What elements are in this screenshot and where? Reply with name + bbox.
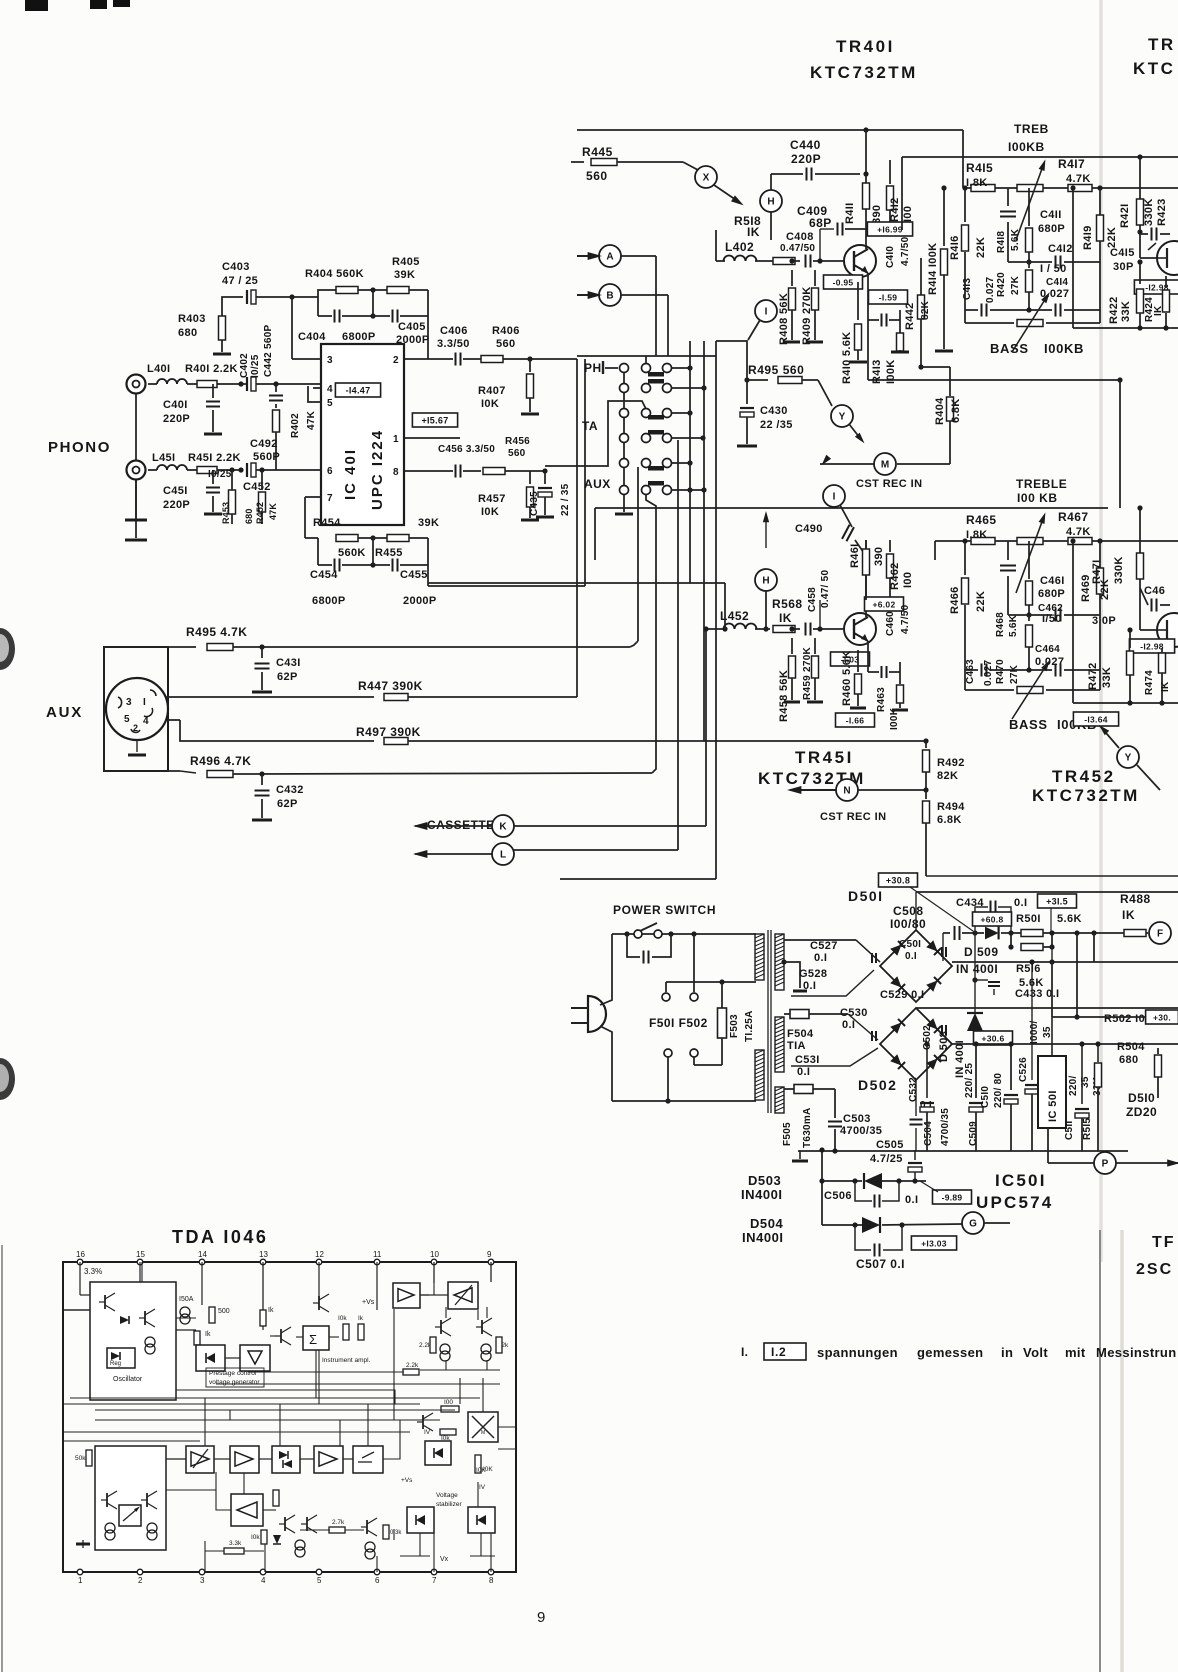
svg-text:30P: 30P <box>1113 261 1134 273</box>
wire collector TR451 up <box>865 540 867 617</box>
ground switch column <box>615 513 633 516</box>
svg-text:R445: R445 <box>582 145 613 159</box>
capacitor C526 el <box>1031 962 1033 1080</box>
TDA chain switch box <box>353 1446 383 1473</box>
svg-text:R40I 2.2K: R40I 2.2K <box>185 363 238 375</box>
wire H down <box>770 212 772 240</box>
wire bus y892 <box>916 891 1178 893</box>
bridge cap stubs D502 <box>871 1031 873 1041</box>
capacitor C440 <box>771 173 803 175</box>
svg-text:8: 8 <box>393 467 399 478</box>
TDA zener box prestage <box>196 1345 225 1371</box>
connector M <box>874 453 896 475</box>
svg-text:I: I <box>765 307 768 318</box>
svg-text:82K: 82K <box>920 300 931 320</box>
svg-text:Messinstrun: Messinstrun <box>1096 1345 1177 1360</box>
svg-text:Ik: Ik <box>358 1315 364 1322</box>
svg-text:IN400I: IN400I <box>742 1230 784 1245</box>
wire phono1 row <box>148 383 157 385</box>
connector F <box>1149 922 1171 944</box>
resistor R447 <box>384 694 408 701</box>
svg-text:33K: 33K <box>1120 301 1132 322</box>
voltage box -1.66 <box>836 713 875 727</box>
switch contact bar row2 <box>648 379 664 384</box>
bridge rectifier D502 <box>880 1008 952 1080</box>
svg-text:C506: C506 <box>824 1190 852 1202</box>
wire vertical c top corner <box>716 341 747 380</box>
svg-text:R406: R406 <box>492 325 520 337</box>
capacitor C406 <box>455 353 457 366</box>
svg-text:62P: 62P <box>277 671 298 683</box>
resistor R421 vertical <box>1137 199 1144 225</box>
svg-text:0.I: 0.I <box>1014 897 1027 909</box>
wire C455 bottom rail right <box>427 565 429 586</box>
TDA gnd left <box>82 1540 84 1548</box>
svg-text:IV: IV <box>424 1429 431 1436</box>
svg-text:R408 56K: R408 56K <box>778 293 790 345</box>
svg-text:L40I: L40I <box>147 363 170 375</box>
wire C403 to node <box>256 296 318 298</box>
loop C434 <box>975 907 988 933</box>
TDA wire v13 <box>262 1278 264 1309</box>
wire top bus ch1 right drop <box>962 130 964 188</box>
resistor treble pot ch2 <box>1017 538 1043 545</box>
capacitor C459 <box>805 623 807 636</box>
svg-text:13: 13 <box>259 1250 268 1259</box>
svg-text:47 / 25: 47 / 25 <box>222 275 258 287</box>
svg-text:TA: TA <box>582 419 598 433</box>
wire R465 bus <box>935 540 1178 542</box>
svg-text:R470: R470 <box>995 659 1006 684</box>
svg-text:CST REC IN: CST REC IN <box>856 478 922 490</box>
connector G <box>962 1212 984 1234</box>
svg-text:I0/25: I0/25 <box>250 354 261 378</box>
svg-text:220/: 220/ <box>1068 1075 1079 1096</box>
wire bottom stub <box>560 878 716 880</box>
capacitor C463 <box>965 669 978 671</box>
node C511 top <box>1074 930 1079 935</box>
node phono2 <box>238 467 243 472</box>
scan artifact top-left marks <box>25 0 48 11</box>
svg-text:2000P: 2000P <box>403 595 437 607</box>
resistor R467 <box>1068 538 1092 545</box>
TDA mix transistor <box>422 1415 424 1429</box>
wire primary tap row <box>666 981 756 983</box>
svg-text:560K: 560K <box>338 547 366 559</box>
switch cap snubber <box>627 934 640 957</box>
wire G528 branch <box>781 959 786 964</box>
TDA pin top 12 <box>316 1259 322 1265</box>
svg-text:TIA: TIA <box>787 1040 806 1052</box>
resistor R469 vertical <box>1097 568 1104 594</box>
svg-text:R4I9: R4I9 <box>1082 225 1094 250</box>
node C462 left <box>1026 612 1031 617</box>
svg-text:7: 7 <box>432 1576 437 1585</box>
svg-text:5.6K: 5.6K <box>1057 913 1082 925</box>
svg-text:R452: R452 <box>255 502 265 524</box>
resistor R424 vertical <box>1165 276 1167 288</box>
svg-text:22 /35: 22 /35 <box>760 419 793 431</box>
node C432 <box>259 771 264 776</box>
svg-text:mit: mit <box>1065 1345 1086 1360</box>
wire base TR452 <box>1139 592 1141 630</box>
resistor R422 vertical <box>1139 262 1141 284</box>
resistor R496-4.7K <box>207 771 233 778</box>
switch pole column <box>623 368 625 512</box>
connector Y ch1 <box>831 405 853 427</box>
svg-text:TREBLE: TREBLE <box>1016 477 1067 491</box>
wire C508 row <box>943 932 950 934</box>
svg-text:560: 560 <box>508 448 526 459</box>
power switch row <box>612 933 756 935</box>
wire N right <box>858 789 926 791</box>
svg-text:680P: 680P <box>1038 223 1065 235</box>
svg-text:10: 10 <box>430 1250 439 1259</box>
resistor R454 body <box>336 535 358 542</box>
svg-text:R568: R568 <box>772 597 803 611</box>
svg-text:C402: C402 <box>239 353 250 378</box>
TDA pin top 10 <box>431 1259 437 1265</box>
TDA osc wires <box>79 1262 81 1295</box>
svg-text:390: 390 <box>871 205 883 224</box>
resistor bass pot ch2 <box>1017 687 1043 694</box>
svg-text:C5I0: C5I0 <box>980 1086 991 1108</box>
resistor R412 vertical <box>889 160 891 184</box>
wire emitter TR401 down <box>867 273 869 282</box>
wire bridge2 top bus <box>916 1007 1178 1009</box>
svg-text:4.7/50: 4.7/50 <box>900 604 911 634</box>
wire bridge2 out <box>952 1043 1178 1045</box>
switch contact bar row5 <box>648 466 664 471</box>
wire aux row1 <box>104 646 196 648</box>
capacitor C404 <box>317 297 319 316</box>
DIN socket circle <box>106 678 168 740</box>
svg-text:X: X <box>703 173 710 184</box>
svg-text:R474: R474 <box>1144 670 1155 695</box>
svg-text:680: 680 <box>244 508 254 524</box>
fuse F504 <box>784 1013 790 1015</box>
node C403 top <box>289 294 294 299</box>
ground C432 <box>252 819 272 822</box>
bridge diode D501 <box>926 977 941 992</box>
svg-text:220P: 220P <box>163 499 190 511</box>
wire R442 to R404 <box>921 366 950 368</box>
voltage box -9.89 <box>933 1190 972 1204</box>
capacitor C435 electrolytic <box>544 471 546 484</box>
capacitor C510 el <box>1010 1044 1012 1090</box>
wire switch vertical b <box>703 341 705 741</box>
voltage box +15.67 <box>412 413 457 427</box>
connector Y ch2 <box>1117 746 1139 768</box>
wire R495 diagonal to Y <box>818 380 832 406</box>
wire plug bottom <box>600 1026 612 1101</box>
power bottom rail <box>612 1100 756 1102</box>
svg-text:3.3%: 3.3% <box>84 1267 102 1276</box>
note voltage box sample <box>764 1343 806 1360</box>
wire feedback rail right <box>428 582 725 584</box>
wire bass pot rail ch1 <box>964 310 966 323</box>
svg-text:D5I0: D5I0 <box>1128 1091 1155 1105</box>
resistor R463 vertical <box>899 682 901 684</box>
svg-text:R456: R456 <box>505 436 530 447</box>
voltage box -1.59 <box>869 290 908 304</box>
svg-text:R4I7: R4I7 <box>1058 157 1085 171</box>
svg-text:1: 1 <box>78 1576 83 1585</box>
TDA wire mesh h7 <box>63 1440 200 1442</box>
resistor R495-560 <box>747 379 768 381</box>
transistor TR452 edge <box>1157 613 1178 647</box>
wire K arrow <box>415 825 492 827</box>
wire bottom rail ch1 right <box>1073 327 1178 329</box>
TDA chain tri1 <box>230 1446 259 1473</box>
wire M left arrow <box>820 463 874 465</box>
svg-text:T630mA: T630mA <box>802 1107 813 1148</box>
wire top bus ch1 <box>577 129 963 131</box>
TDA 100 res <box>441 1406 459 1412</box>
TDA pin12 wire <box>318 1262 320 1300</box>
svg-text:C4I3: C4I3 <box>962 278 973 300</box>
svg-text:R404 560K: R404 560K <box>305 268 364 280</box>
node C434 left <box>962 932 984 934</box>
TDA wire mid v5 <box>393 1309 395 1420</box>
voltage box -12.98 ch1 <box>1134 280 1178 294</box>
resistor R461 vertical <box>865 540 867 548</box>
resistor R466 vertical <box>964 541 966 575</box>
capacitor C408 <box>805 255 807 268</box>
wire TA staircase <box>545 401 646 466</box>
svg-text:in: in <box>1001 1345 1013 1360</box>
bridge diode D502 <box>926 1055 941 1070</box>
wire row4 drop <box>677 440 679 850</box>
svg-text:IK: IK <box>1153 305 1164 316</box>
wire R502 row <box>1052 1016 1147 1018</box>
svg-text:C455: C455 <box>400 569 428 581</box>
bridge diode D502 <box>890 1054 905 1069</box>
phono jack 2 <box>127 461 146 480</box>
wire switch vertical c <box>715 341 717 879</box>
svg-text:IK: IK <box>747 225 760 239</box>
wire treble bus ch2 top <box>595 507 1108 509</box>
svg-text:560: 560 <box>496 338 515 350</box>
capacitor C431 <box>261 647 263 658</box>
TDA sigma box <box>303 1326 329 1350</box>
svg-text:I00 KB: I00 KB <box>1017 491 1058 505</box>
node R467 right <box>1097 538 1102 543</box>
zener D508 on branch <box>974 980 976 1012</box>
resistor R416 vertical <box>964 188 966 222</box>
TDA tri down box <box>240 1345 270 1371</box>
svg-text:5: 5 <box>124 714 130 725</box>
svg-text:I.8K: I.8K <box>966 177 988 189</box>
svg-text:C403: C403 <box>222 261 250 273</box>
svg-text:C432: C432 <box>276 784 304 796</box>
wire sec1 diag to bridge <box>856 940 880 962</box>
wire B right <box>621 294 668 296</box>
svg-text:-I.66: -I.66 <box>846 716 865 726</box>
switch row1 right wire <box>671 367 690 369</box>
svg-text:14: 14 <box>198 1250 207 1259</box>
svg-text:I: I <box>143 697 146 708</box>
svg-text:R495 4.7K: R495 4.7K <box>186 625 247 639</box>
wire C490 to R461 <box>855 540 866 556</box>
switch contact pair row6 <box>642 486 651 495</box>
wire K right <box>514 825 706 827</box>
svg-text:I00/80: I00/80 <box>890 917 926 931</box>
svg-text:B: B <box>606 291 613 302</box>
svg-text:R422: R422 <box>1108 296 1120 324</box>
TDA osc diode <box>120 1316 129 1324</box>
pot arrow treble ch1 <box>1016 166 1043 240</box>
svg-text:12: 12 <box>315 1250 324 1259</box>
svg-text:A: A <box>606 252 613 263</box>
svg-text:+30.8: +30.8 <box>886 876 910 886</box>
svg-text:+3I.5: +3I.5 <box>1046 897 1068 907</box>
bridge diode D501 <box>890 976 905 991</box>
TDA 0.3k <box>383 1525 389 1539</box>
svg-text:680: 680 <box>1119 1054 1138 1066</box>
TDA wires top <box>63 1309 90 1311</box>
svg-text:R488: R488 <box>1120 892 1151 906</box>
node R407 <box>527 356 532 361</box>
wire C511 drop <box>1076 933 1078 1017</box>
svg-text:C45I: C45I <box>163 485 188 497</box>
svg-text:R458 56K: R458 56K <box>778 670 790 722</box>
svg-text:0.I: 0.I <box>797 1066 810 1078</box>
svg-text:R5I5: R5I5 <box>1082 1118 1093 1140</box>
voltage box +30x <box>1146 1010 1178 1024</box>
svg-text:TI.25A: TI.25A <box>744 1010 755 1042</box>
IC501 regulator box <box>1038 1056 1066 1128</box>
transformer secondary bottom <box>775 1087 784 1113</box>
arrow to Y ch2 <box>1100 726 1119 748</box>
connector H ch1 <box>760 190 782 212</box>
svg-text:47K: 47K <box>306 410 317 430</box>
svg-text:330K: 330K <box>1143 198 1155 226</box>
capacitor C508 electrolytic <box>954 926 956 940</box>
resistor R472 vertical <box>1129 630 1131 648</box>
TDA pin9 wire <box>490 1262 492 1282</box>
svg-text:I.2: I.2 <box>771 1345 786 1359</box>
arrow from Y <box>849 424 860 438</box>
svg-text:R492: R492 <box>937 757 965 769</box>
svg-text:IC50I: IC50I <box>995 1171 1047 1190</box>
TDA wire h4 <box>63 1431 410 1433</box>
node C413 C414 rail <box>1026 307 1031 312</box>
resistor R501 lower parallel <box>1010 933 1012 947</box>
TDA wire right v6 <box>459 1378 461 1404</box>
wire L452 row <box>706 628 725 630</box>
transformer secondary mid <box>775 1017 784 1072</box>
resistor R465 <box>971 538 995 545</box>
svg-text:C406: C406 <box>440 325 468 337</box>
wire right vertical ch2 <box>1139 508 1141 592</box>
svg-text:IK: IK <box>1160 681 1171 692</box>
svg-text:I50A: I50A <box>179 1296 194 1303</box>
svg-text:R4I4 I00K: R4I4 I00K <box>927 243 939 295</box>
svg-text:220P: 220P <box>163 413 190 425</box>
feedback loop top wires <box>318 290 330 297</box>
wire phono1 ground <box>135 394 137 538</box>
TDA pin13 wire <box>262 1262 264 1330</box>
resistor R402 <box>273 410 280 432</box>
svg-text:1: 1 <box>393 434 399 445</box>
TDA var res box <box>119 1505 141 1526</box>
wire R516 branch <box>974 933 976 980</box>
svg-text:68P: 68P <box>809 216 832 230</box>
svg-text:R409 270K: R409 270K <box>801 286 813 345</box>
TDA low mid transistor pair <box>284 1517 286 1531</box>
coil L401 <box>157 379 187 384</box>
TDA wire bottom runs <box>94 1550 96 1572</box>
svg-text:D503: D503 <box>748 1173 781 1188</box>
svg-text:4.7/50: 4.7/50 <box>900 236 911 266</box>
switch pole contact row2 <box>620 384 629 393</box>
arrow up wire ch2 <box>765 522 767 548</box>
vertical line right lower <box>1099 1230 1101 1672</box>
wire R445 diagonal to X <box>683 162 698 170</box>
svg-text:C46: C46 <box>1144 585 1165 597</box>
TDA pin bottom 5 <box>316 1569 322 1575</box>
svg-text:47K: 47K <box>268 503 278 520</box>
wire P right <box>1116 1162 1178 1164</box>
svg-text:R462: R462 <box>889 562 901 590</box>
svg-text:3.3k: 3.3k <box>229 1540 242 1547</box>
phono jack 1 <box>127 375 146 394</box>
svg-text:+30.6: +30.6 <box>981 1034 1004 1044</box>
svg-text:IK: IK <box>779 611 792 625</box>
svg-text:-I3.64: -I3.64 <box>1084 715 1108 725</box>
wire base TR402 <box>1139 238 1141 258</box>
svg-text:BASS: BASS <box>1009 717 1048 732</box>
svg-text:4: 4 <box>143 716 149 727</box>
svg-text:0.I: 0.I <box>803 980 816 992</box>
page fold line <box>1099 0 1103 1262</box>
capacitor C413 <box>965 309 978 311</box>
svg-text:4.7K: 4.7K <box>1066 173 1091 185</box>
switch pole contact row5 <box>620 459 629 468</box>
ground R410 <box>849 361 867 364</box>
mains plug <box>588 996 606 1032</box>
wire diag -9.89 <box>920 1181 938 1192</box>
svg-text:F50I F502: F50I F502 <box>649 1016 708 1030</box>
svg-text:R463: R463 <box>876 687 887 712</box>
TDA wire sigma down <box>315 1350 317 1398</box>
svg-text:0.027: 0.027 <box>985 276 996 303</box>
node L452 out <box>703 626 708 631</box>
TDA bottom rail <box>63 1571 516 1573</box>
svg-text:H: H <box>767 197 774 208</box>
wire bridge2 in <box>848 1014 878 1040</box>
svg-text:390: 390 <box>873 547 885 566</box>
wire bridge2 in2 <box>791 1048 878 1066</box>
fuse F503 <box>721 982 723 1008</box>
resistor R452 <box>259 467 264 472</box>
TDA zener low b <box>468 1507 495 1533</box>
transformer core lines <box>767 930 769 1113</box>
node R458 top <box>789 626 794 631</box>
svg-text:220/ 25: 220/ 25 <box>964 1063 975 1098</box>
svg-text:C405: C405 <box>398 321 426 333</box>
TDA wire 3.3k link <box>204 1541 206 1551</box>
svg-text:I.: I. <box>741 1345 748 1359</box>
ground R403 <box>213 353 231 356</box>
resistor R404-2 vertical <box>949 367 951 396</box>
node R495 <box>744 377 749 382</box>
svg-text:TDA I046: TDA I046 <box>172 1227 268 1247</box>
bridge diode D502 <box>890 1019 905 1034</box>
svg-text:+Vs: +Vs <box>401 1477 413 1484</box>
svg-text:D 508: D 508 <box>938 1031 950 1062</box>
